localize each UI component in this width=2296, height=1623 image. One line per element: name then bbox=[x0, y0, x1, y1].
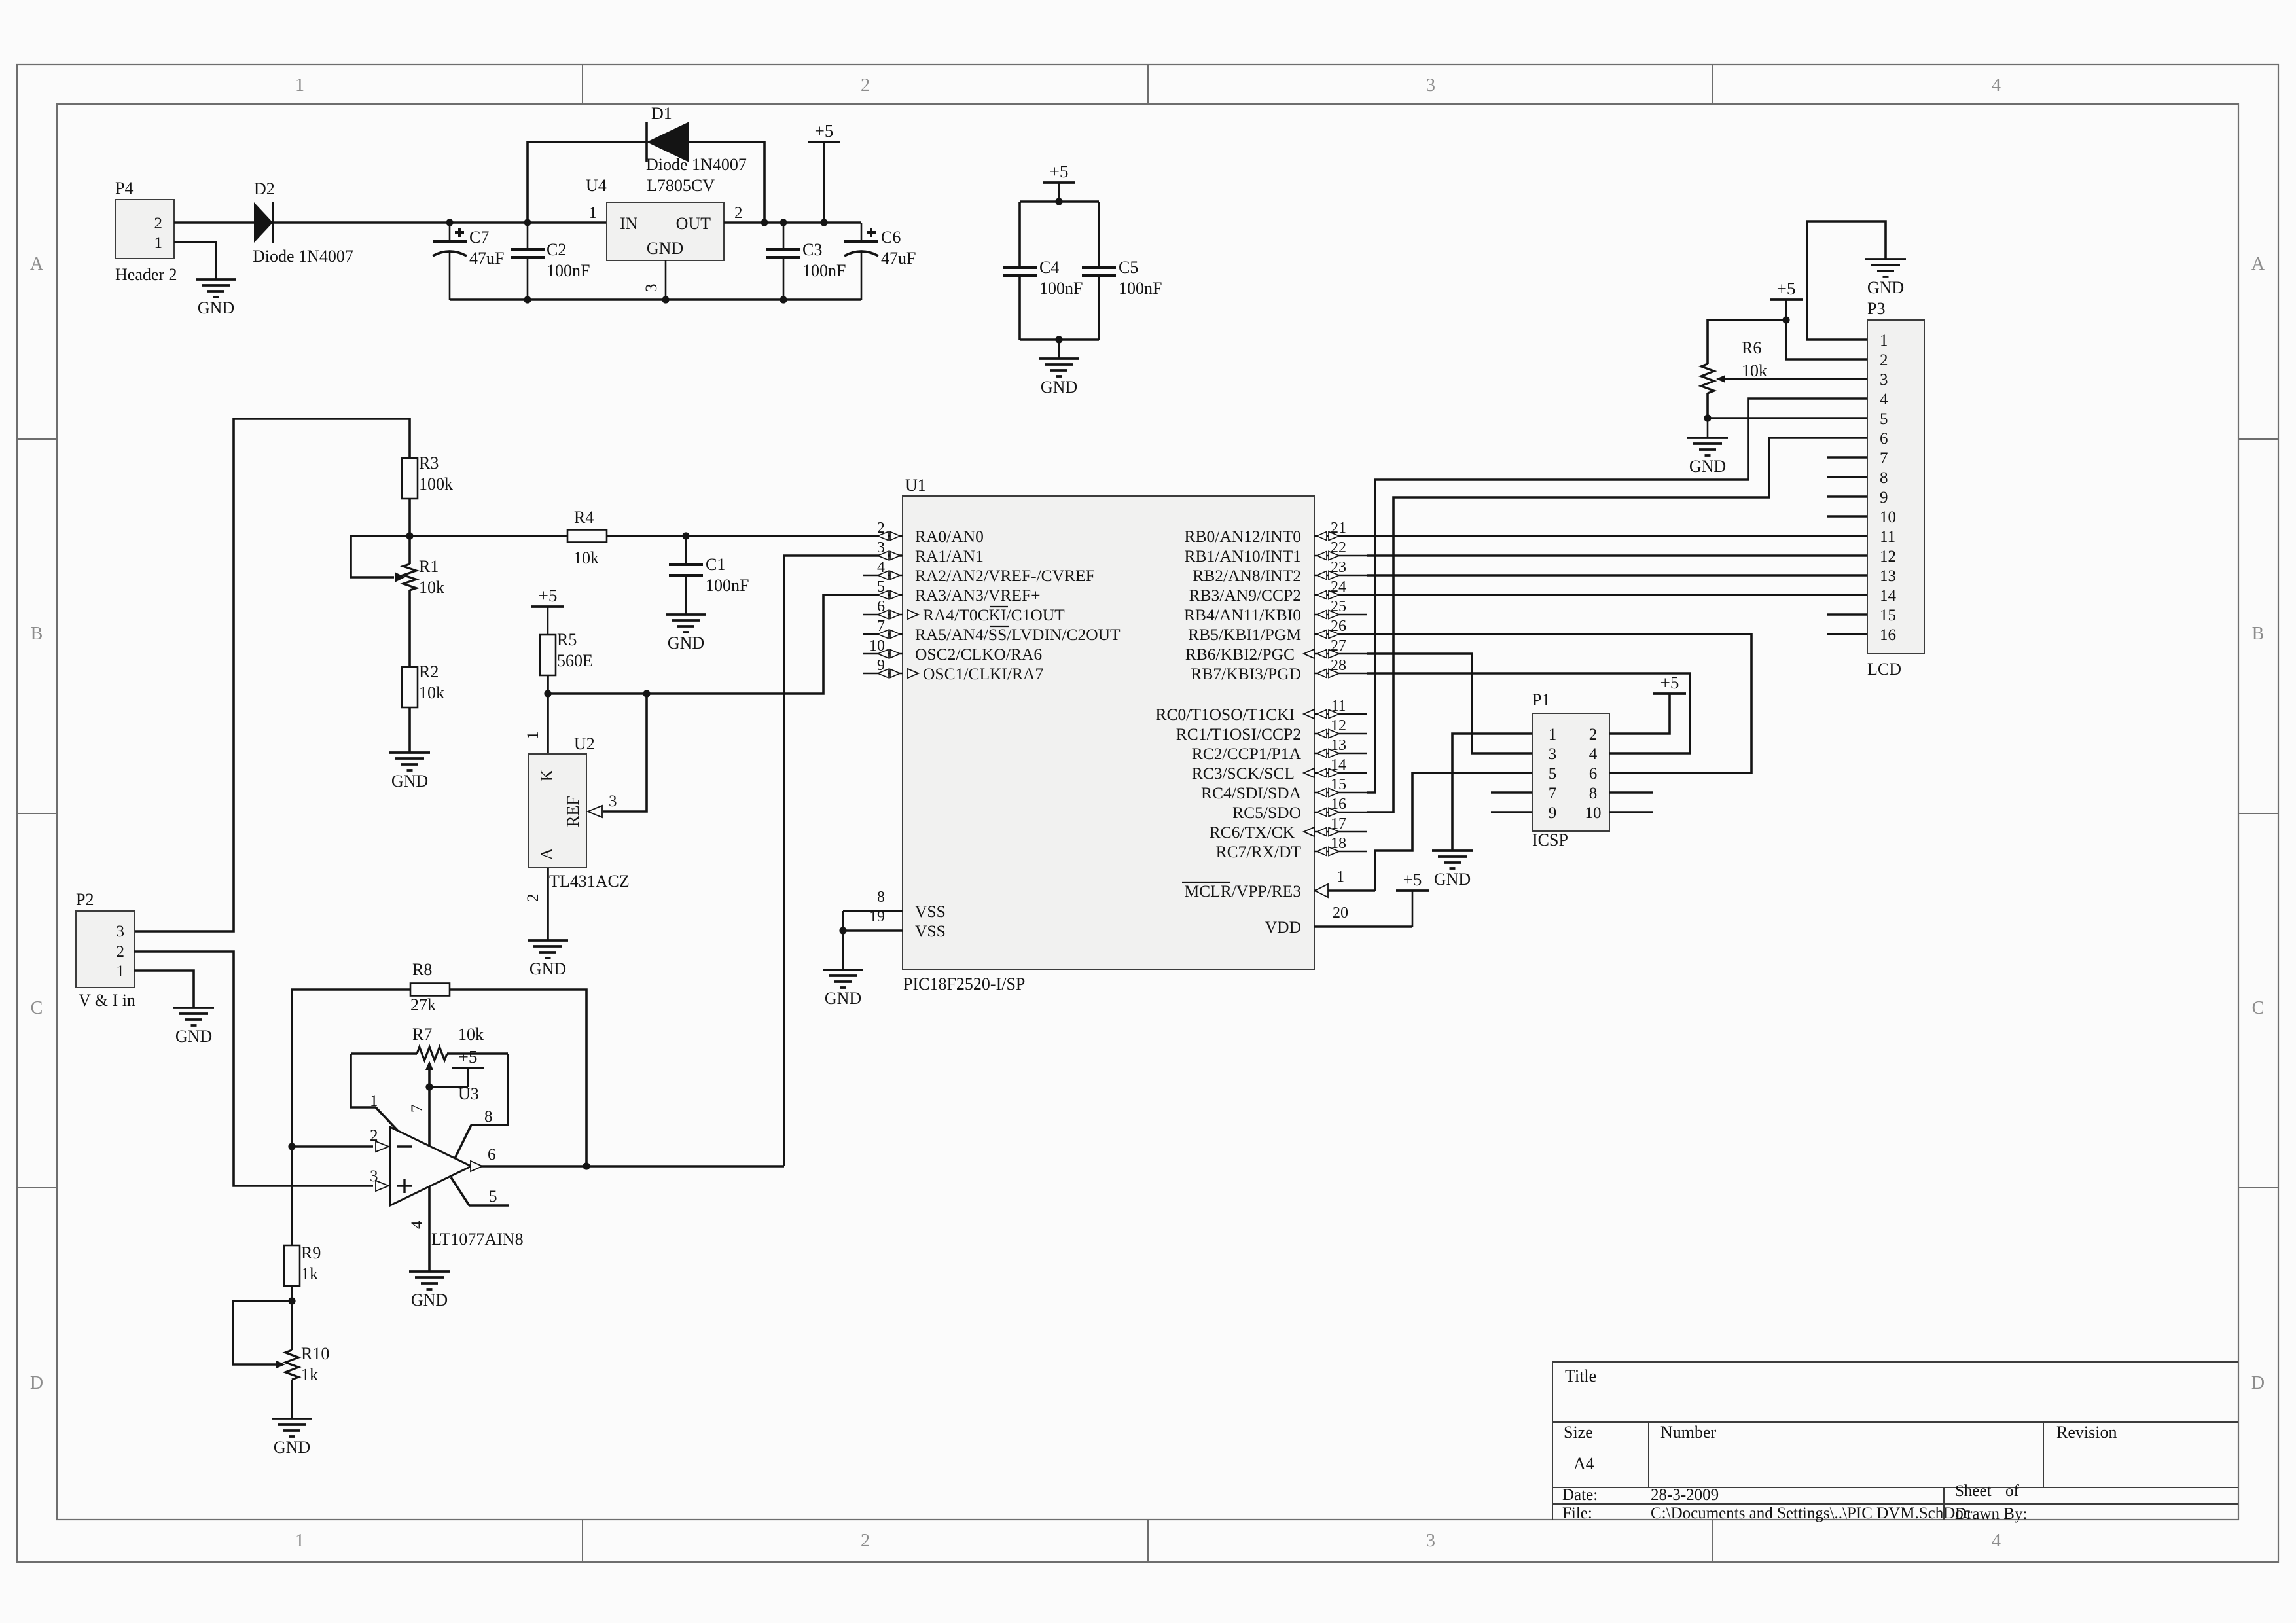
svg-text:1: 1 bbox=[1880, 332, 1888, 349]
svg-text:P2: P2 bbox=[76, 890, 94, 909]
C4/C5 top rail bbox=[1020, 200, 1099, 203]
P3 unconnected stubs bbox=[1827, 456, 1867, 459]
node R6 bottom bbox=[1704, 414, 1711, 421]
svg-text:19: 19 bbox=[869, 908, 885, 925]
svg-text:7: 7 bbox=[408, 1105, 426, 1113]
svg-text:3: 3 bbox=[609, 793, 617, 810]
svg-text:GND: GND bbox=[529, 959, 566, 978]
svg-text:4: 4 bbox=[408, 1221, 426, 1229]
svg-text:VSS: VSS bbox=[915, 921, 946, 940]
svg-text:2: 2 bbox=[861, 1531, 870, 1551]
svg-text:10: 10 bbox=[1585, 804, 1602, 822]
resistor R9 1k bbox=[284, 1245, 300, 1286]
extra out arrows RA4 / OSC1 / OSC2 bbox=[908, 610, 918, 619]
svg-text:GND: GND bbox=[198, 298, 234, 317]
node C7 top bbox=[446, 219, 453, 226]
svg-text:1: 1 bbox=[117, 963, 125, 980]
svg-text:1: 1 bbox=[1549, 726, 1557, 743]
svg-text:4: 4 bbox=[1880, 391, 1888, 408]
svg-text:A: A bbox=[2251, 254, 2265, 274]
bottom rail of regulator section bbox=[450, 298, 861, 301]
svg-text:10k: 10k bbox=[458, 1025, 484, 1044]
svg-text:11: 11 bbox=[1880, 528, 1895, 546]
U1 MCLR pin stub bbox=[1314, 889, 1375, 892]
svg-text:9: 9 bbox=[1880, 489, 1888, 507]
node C1 bbox=[682, 532, 689, 539]
svg-text:47uF: 47uF bbox=[469, 249, 504, 268]
svg-text:8: 8 bbox=[1589, 785, 1598, 802]
svg-text:14: 14 bbox=[1880, 587, 1897, 605]
capacitor C3 100nF bbox=[783, 223, 785, 249]
connector P3 LCD bbox=[1867, 320, 1924, 654]
svg-text:+5: +5 bbox=[815, 121, 834, 141]
P1 pin8/pin10 stubs bbox=[1609, 791, 1653, 794]
svg-text:+5: +5 bbox=[1777, 279, 1796, 298]
U3 pin1 diagonal bbox=[376, 1107, 399, 1132]
svg-text:100k: 100k bbox=[419, 474, 453, 493]
op-amp output wire to RA1 bbox=[471, 1165, 784, 1168]
svg-text:Header 2: Header 2 bbox=[115, 265, 177, 284]
svg-text:File:: File: bbox=[1562, 1505, 1592, 1522]
wire P3.6 to RC5 bbox=[1367, 438, 1867, 812]
svg-text:GND: GND bbox=[1041, 378, 1077, 397]
svg-text:1: 1 bbox=[589, 204, 598, 222]
svg-text:R7: R7 bbox=[412, 1025, 432, 1044]
svg-text:3: 3 bbox=[1426, 75, 1435, 96]
svg-text:16: 16 bbox=[1880, 626, 1896, 644]
svg-text:P3: P3 bbox=[1867, 299, 1885, 318]
shunt reference U2 TL431ACZ bbox=[528, 754, 586, 868]
svg-text:VDD: VDD bbox=[1265, 918, 1301, 936]
svg-text:GND: GND bbox=[411, 1291, 448, 1310]
svg-text:OSC2/CLKO/RA6: OSC2/CLKO/RA6 bbox=[915, 645, 1042, 664]
U3 pin5 stub bbox=[451, 1177, 469, 1205]
node R9/R10 bbox=[288, 1297, 295, 1304]
svg-text:R6: R6 bbox=[1742, 338, 1761, 357]
U3 pin8 wire bbox=[471, 1054, 508, 1125]
wire P3.1 to ground bbox=[1807, 221, 1886, 340]
potentiometer R7 10k bbox=[351, 1052, 417, 1055]
ground bbox=[666, 615, 706, 652]
capacitor C7 47uF (polarized) bbox=[449, 223, 451, 241]
svg-text:RB7/KBI3/PGD: RB7/KBI3/PGD bbox=[1191, 664, 1301, 683]
wire P2.2 to op-amp +input bbox=[134, 952, 373, 1186]
wire D1 bypass loop right bbox=[689, 142, 764, 223]
+5 power bbox=[808, 121, 840, 142]
svg-text:R1: R1 bbox=[419, 557, 439, 576]
svg-text:3: 3 bbox=[1426, 1531, 1435, 1551]
capacitor C6 47uF (polarized) bbox=[861, 223, 863, 241]
wire node to -input bbox=[292, 1145, 373, 1148]
wire R5 bottom to reference node bbox=[547, 675, 549, 694]
P1 pin2 wire to +5 bbox=[1609, 694, 1670, 734]
R10 wiper loop bbox=[233, 1301, 292, 1364]
ground bbox=[1039, 359, 1079, 397]
input arrows on RB6/RC0/RC3/RC6 bbox=[1304, 649, 1314, 658]
node R5/U2 bbox=[544, 690, 551, 697]
svg-text:Size: Size bbox=[1564, 1423, 1593, 1442]
capacitor C4 100nF bbox=[1018, 202, 1021, 268]
svg-text:P1: P1 bbox=[1532, 690, 1550, 709]
svg-text:6: 6 bbox=[1589, 765, 1598, 783]
svg-text:1: 1 bbox=[295, 1531, 304, 1551]
wire P4.1 to ground bbox=[174, 242, 216, 279]
svg-text:ICSP: ICSP bbox=[1532, 830, 1568, 849]
svg-text:OSC1/CLKI/RA7: OSC1/CLKI/RA7 bbox=[923, 664, 1043, 683]
P1 pin7/pin9 stubs bbox=[1491, 791, 1532, 794]
U1 left pin stubs bbox=[863, 535, 903, 537]
svg-text:D: D bbox=[2251, 1373, 2265, 1393]
svg-text:GND: GND bbox=[175, 1027, 212, 1046]
svg-text:Number: Number bbox=[1660, 1423, 1717, 1442]
svg-text:RC3/SCK/SCL: RC3/SCK/SCL bbox=[1192, 764, 1295, 783]
svg-text:L7805CV: L7805CV bbox=[647, 176, 715, 195]
svg-text:6: 6 bbox=[488, 1146, 496, 1164]
svg-text:2: 2 bbox=[1880, 351, 1888, 369]
svg-text:2: 2 bbox=[524, 894, 542, 902]
connector P2 (V & I in) bbox=[76, 911, 134, 988]
svg-text:4: 4 bbox=[1992, 1531, 2001, 1551]
svg-text:C1: C1 bbox=[706, 555, 725, 574]
svg-text:REF: REF bbox=[564, 796, 583, 827]
svg-text:1: 1 bbox=[154, 234, 163, 252]
svg-text:RC5/SDO: RC5/SDO bbox=[1232, 803, 1301, 822]
svg-text:27k: 27k bbox=[410, 995, 436, 1014]
svg-text:RA5/AN4/SS/LVDIN/C2OUT: RA5/AN4/SS/LVDIN/C2OUT bbox=[915, 625, 1121, 644]
wire RB6 to P1.3 bbox=[1367, 654, 1532, 753]
svg-text:RA2/AN2/VREF-/CVREF: RA2/AN2/VREF-/CVREF bbox=[915, 566, 1095, 585]
svg-text:RB6/KBI2/PGC: RB6/KBI2/PGC bbox=[1185, 645, 1295, 664]
svg-text:Diode 1N4007: Diode 1N4007 bbox=[646, 155, 747, 174]
svg-text:RB2/AN8/INT2: RB2/AN8/INT2 bbox=[1193, 566, 1301, 585]
svg-text:8: 8 bbox=[484, 1108, 493, 1126]
svg-text:C2: C2 bbox=[547, 240, 566, 259]
svg-text:R9: R9 bbox=[301, 1243, 321, 1262]
wire P2.1 to ground bbox=[134, 971, 194, 1008]
svg-text:B: B bbox=[2252, 624, 2265, 644]
resistor R8 27k bbox=[410, 984, 450, 996]
svg-text:U3: U3 bbox=[458, 1084, 479, 1103]
wire +5 node to P3.2 bbox=[1786, 320, 1867, 359]
+5 power bbox=[1653, 673, 1686, 694]
wire RB5 to P1.6 bbox=[1367, 634, 1751, 773]
svg-text:1k: 1k bbox=[301, 1365, 318, 1384]
potentiometer R6 10k bbox=[1708, 320, 1786, 364]
svg-text:RA3/AN3/VREF+: RA3/AN3/VREF+ bbox=[915, 586, 1041, 605]
R6 wiper wire from P3.3 bbox=[1725, 378, 1867, 380]
svg-text:Title: Title bbox=[1565, 1366, 1596, 1385]
svg-text:2: 2 bbox=[1589, 726, 1598, 743]
svg-text:IN: IN bbox=[620, 214, 638, 233]
svg-text:2: 2 bbox=[734, 204, 743, 222]
diode D1 1N4007 bbox=[645, 122, 648, 162]
svg-text:10: 10 bbox=[1880, 508, 1896, 526]
svg-text:3: 3 bbox=[1549, 745, 1557, 763]
svg-text:R3: R3 bbox=[419, 454, 439, 473]
svg-text:K: K bbox=[537, 769, 556, 781]
overline MCLR bbox=[1182, 882, 1230, 883]
svg-text:560E: 560E bbox=[557, 651, 593, 670]
C4/C5 bottom rail bbox=[1020, 338, 1099, 341]
svg-text:A4: A4 bbox=[1573, 1454, 1594, 1473]
main analog line to RA0 bbox=[410, 535, 567, 537]
U1 right pin stubs bbox=[1314, 535, 1367, 537]
svg-text:2: 2 bbox=[370, 1127, 378, 1145]
svg-text:D: D bbox=[30, 1373, 43, 1393]
svg-text:MCLR/VPP/RE3: MCLR/VPP/RE3 bbox=[1184, 882, 1301, 901]
svg-text:of: of bbox=[2005, 1482, 2020, 1500]
svg-text:1: 1 bbox=[370, 1092, 378, 1110]
svg-text:28-3-2009: 28-3-2009 bbox=[1651, 1486, 1719, 1504]
svg-text:2: 2 bbox=[154, 215, 163, 232]
U1 VDD pin stub bbox=[1314, 925, 1412, 928]
ground bbox=[823, 970, 863, 1008]
ground bbox=[1865, 259, 1906, 297]
svg-text:+5: +5 bbox=[539, 586, 558, 605]
+5 power bbox=[1770, 279, 1803, 300]
svg-text:C: C bbox=[31, 998, 43, 1018]
svg-text:3: 3 bbox=[1880, 371, 1888, 389]
P1 pin1 wire to ground bbox=[1452, 734, 1532, 851]
svg-text:RB4/AN11/KBI0: RB4/AN11/KBI0 bbox=[1184, 605, 1301, 624]
zone row ticks bbox=[17, 438, 57, 440]
capacitor C2 100nF bbox=[527, 223, 529, 249]
svg-text:1: 1 bbox=[1336, 868, 1344, 885]
svg-text:Revision: Revision bbox=[2056, 1423, 2117, 1442]
op-amp U3 LT1077AIN8 bbox=[390, 1127, 471, 1205]
svg-text:RC0/T1OSO/T1CKI: RC0/T1OSO/T1CKI bbox=[1155, 705, 1295, 724]
svg-text:RC7/RX/DT: RC7/RX/DT bbox=[1216, 842, 1302, 861]
node OUT/D1 bbox=[761, 219, 768, 226]
svg-text:20: 20 bbox=[1333, 904, 1348, 921]
svg-text:4: 4 bbox=[1589, 745, 1598, 763]
svg-text:15: 15 bbox=[1880, 607, 1896, 624]
svg-text:R2: R2 bbox=[419, 662, 439, 681]
svg-text:10k: 10k bbox=[419, 578, 444, 597]
wire MCLR to P1.5 bbox=[1375, 773, 1532, 891]
wires RB0-RB3 to P3.11-14 bbox=[1367, 535, 1867, 537]
svg-text:Drawn By:: Drawn By: bbox=[1955, 1505, 2027, 1523]
svg-text:R10: R10 bbox=[301, 1344, 329, 1363]
svg-text:RB0/AN12/INT0: RB0/AN12/INT0 bbox=[1185, 527, 1302, 546]
svg-text:D2: D2 bbox=[254, 179, 275, 198]
node D1/C2 bbox=[524, 219, 531, 226]
svg-text:RB5/KBI1/PGM: RB5/KBI1/PGM bbox=[1188, 625, 1301, 644]
potentiometer R1 10k bbox=[408, 536, 411, 564]
wire U2 pin1 K bbox=[547, 694, 549, 754]
svg-text:9: 9 bbox=[1549, 804, 1557, 822]
potentiometer R10 1k bbox=[291, 1301, 293, 1350]
svg-text:Sheet: Sheet bbox=[1955, 1482, 1992, 1500]
svg-text:LCD: LCD bbox=[1867, 660, 1901, 679]
svg-text:VSS: VSS bbox=[915, 902, 946, 921]
capacitor C1 100nF bbox=[685, 536, 687, 565]
svg-text:A: A bbox=[537, 847, 556, 860]
svg-text:+5: +5 bbox=[1660, 673, 1679, 692]
svg-text:5: 5 bbox=[489, 1188, 497, 1205]
svg-text:3: 3 bbox=[643, 284, 660, 293]
resistor R4 10k bbox=[567, 530, 607, 543]
reference node wire to RA3 bbox=[548, 595, 903, 694]
wire RB7 to P1.4 bbox=[1367, 673, 1690, 753]
ground bbox=[409, 1272, 450, 1310]
svg-text:RC6/TX/CK: RC6/TX/CK bbox=[1210, 823, 1295, 842]
MCU U1 PIC18F2520 bbox=[903, 496, 1314, 969]
svg-text:PIC18F2520-I/SP: PIC18F2520-I/SP bbox=[903, 974, 1025, 993]
+5 power bbox=[1396, 870, 1429, 891]
diode D2 1N4007 bbox=[254, 202, 273, 243]
svg-text:8: 8 bbox=[1880, 469, 1888, 487]
svg-text:LT1077AIN8: LT1077AIN8 bbox=[431, 1230, 524, 1249]
wire R3 bottom to node bbox=[408, 499, 411, 536]
svg-text:C: C bbox=[2252, 998, 2265, 1018]
svg-text:100nF: 100nF bbox=[547, 261, 590, 280]
svg-text:+5: +5 bbox=[1050, 162, 1069, 181]
wire P4.2 to D2 bbox=[174, 221, 254, 224]
svg-text:B: B bbox=[31, 624, 43, 644]
ground bbox=[1432, 851, 1473, 889]
svg-text:P4: P4 bbox=[115, 179, 133, 198]
ground bbox=[173, 1008, 214, 1046]
svg-text:100nF: 100nF bbox=[706, 576, 749, 595]
svg-text:+5: +5 bbox=[459, 1047, 478, 1067]
U4 GND pin 3 wire bbox=[665, 260, 667, 300]
node C3 top bbox=[780, 219, 787, 226]
wire R2 to ground bbox=[408, 707, 411, 753]
ground bbox=[528, 940, 568, 978]
svg-text:RC1/T1OSI/CCP2: RC1/T1OSI/CCP2 bbox=[1176, 724, 1301, 743]
svg-text:5: 5 bbox=[1549, 765, 1557, 783]
svg-text:RA0/AN0: RA0/AN0 bbox=[915, 527, 984, 546]
resistor R2 10k bbox=[402, 667, 418, 707]
wire P3.4 to RC4 bbox=[1367, 399, 1867, 793]
svg-text:U4: U4 bbox=[586, 176, 607, 195]
wire P2.3 up to R3 top bbox=[134, 419, 410, 931]
svg-text:GND: GND bbox=[1689, 457, 1726, 476]
+5 power bbox=[1043, 162, 1075, 183]
svg-text:7: 7 bbox=[1549, 785, 1557, 802]
svg-text:47uF: 47uF bbox=[881, 249, 916, 268]
overline RA4 T0CKI bbox=[990, 606, 1008, 607]
capacitor C5 100nF bbox=[1098, 202, 1100, 268]
resistor R5 560E bbox=[540, 635, 556, 675]
svg-text:GND: GND bbox=[1867, 278, 1904, 297]
svg-text:RB1/AN10/INT1: RB1/AN10/INT1 bbox=[1185, 546, 1302, 565]
regulator U4 L7805CV bbox=[607, 202, 724, 260]
svg-text:GND: GND bbox=[647, 239, 683, 258]
svg-text:2: 2 bbox=[861, 75, 870, 96]
svg-text:3: 3 bbox=[117, 923, 125, 940]
wire U2 pin2 A to ground bbox=[547, 868, 549, 940]
svg-text:+5: +5 bbox=[1403, 870, 1422, 889]
overline RA5 SS bbox=[990, 626, 1009, 627]
node +5/R6 bbox=[1782, 316, 1789, 323]
node REF feedback bbox=[643, 690, 650, 697]
svg-text:RC2/CCP1/P1A: RC2/CCP1/P1A bbox=[1192, 744, 1302, 763]
svg-text:13: 13 bbox=[1880, 567, 1896, 585]
connector P1 ICSP bbox=[1532, 713, 1609, 831]
wire node to P3.5 bbox=[1708, 417, 1867, 419]
svg-text:GND: GND bbox=[391, 772, 428, 791]
svg-text:C6: C6 bbox=[881, 228, 901, 247]
svg-text:TL431ACZ: TL431ACZ bbox=[549, 872, 630, 891]
U3 pin4 to ground bbox=[428, 1186, 431, 1272]
svg-text:U2: U2 bbox=[574, 734, 595, 753]
svg-text:7: 7 bbox=[1880, 450, 1888, 467]
svg-text:C:\Documents and Settings\..\P: C:\Documents and Settings\..\PIC DVM.Sch… bbox=[1651, 1505, 1971, 1522]
wire D1 bypass loop left bbox=[528, 142, 647, 223]
svg-text:OUT: OUT bbox=[676, 214, 711, 233]
svg-text:R4: R4 bbox=[574, 508, 594, 527]
svg-text:Diode 1N4007: Diode 1N4007 bbox=[253, 247, 353, 266]
U1 VSS pin stubs to ground bbox=[843, 910, 903, 912]
svg-text:GND: GND bbox=[274, 1438, 310, 1457]
wire R8 right to output node bbox=[450, 990, 586, 1166]
svg-text:C4: C4 bbox=[1039, 258, 1059, 277]
R1 wiper loop bbox=[351, 536, 410, 577]
svg-text:Date:: Date: bbox=[1562, 1486, 1598, 1504]
svg-text:5: 5 bbox=[1880, 410, 1888, 428]
wire U4 OUT rail bbox=[724, 221, 861, 224]
svg-text:RA4/T0CKI/C1OUT: RA4/T0CKI/C1OUT bbox=[923, 605, 1065, 624]
svg-text:R8: R8 bbox=[412, 960, 432, 979]
node R3/R1/R4 bbox=[406, 532, 413, 539]
svg-text:GND: GND bbox=[668, 633, 704, 652]
node +5 tap bbox=[820, 219, 827, 226]
zone column ticks bbox=[582, 65, 583, 104]
ground bbox=[1687, 438, 1728, 476]
svg-text:1k: 1k bbox=[301, 1264, 318, 1283]
svg-text:3: 3 bbox=[370, 1168, 378, 1185]
ground bbox=[272, 1419, 312, 1457]
ground bbox=[389, 753, 430, 791]
wire R8 left to inverting node bbox=[292, 990, 410, 1147]
U3 pin7 supply wire bbox=[428, 1087, 431, 1147]
svg-text:2: 2 bbox=[117, 943, 125, 961]
svg-text:V & I in: V & I in bbox=[79, 991, 135, 1010]
node inverting input bbox=[288, 1143, 295, 1150]
svg-text:U1: U1 bbox=[905, 476, 926, 495]
svg-text:RB3/AN9/CCP2: RB3/AN9/CCP2 bbox=[1189, 586, 1301, 605]
svg-text:10k: 10k bbox=[573, 548, 599, 567]
svg-text:1: 1 bbox=[295, 75, 304, 96]
svg-text:100nF: 100nF bbox=[1039, 279, 1083, 298]
svg-text:GND: GND bbox=[825, 989, 861, 1008]
svg-text:RA1/AN1: RA1/AN1 bbox=[915, 546, 984, 565]
svg-text:4: 4 bbox=[1992, 75, 2001, 96]
svg-text:C7: C7 bbox=[469, 228, 489, 247]
svg-text:GND: GND bbox=[1434, 870, 1471, 889]
svg-text:C5: C5 bbox=[1119, 258, 1138, 277]
title block bbox=[1552, 1361, 2238, 1363]
svg-text:100nF: 100nF bbox=[1119, 279, 1162, 298]
+5 power bbox=[452, 1047, 484, 1068]
wire node down to U2 REF bbox=[603, 694, 647, 811]
svg-text:10k: 10k bbox=[419, 683, 444, 702]
resistor R3 100k bbox=[402, 458, 418, 499]
svg-text:1: 1 bbox=[524, 732, 542, 740]
svg-text:R5: R5 bbox=[557, 630, 577, 649]
svg-text:D1: D1 bbox=[651, 104, 672, 123]
svg-text:10k: 10k bbox=[1742, 361, 1767, 380]
svg-text:C3: C3 bbox=[802, 240, 822, 259]
svg-text:RC4/SDI/SDA: RC4/SDI/SDA bbox=[1201, 783, 1302, 802]
wire D2 to regulator input rail bbox=[273, 221, 607, 224]
svg-text:A: A bbox=[30, 254, 44, 274]
svg-text:8: 8 bbox=[877, 889, 885, 906]
svg-text:6: 6 bbox=[1880, 430, 1888, 448]
+5 above regulator output bbox=[823, 142, 825, 223]
